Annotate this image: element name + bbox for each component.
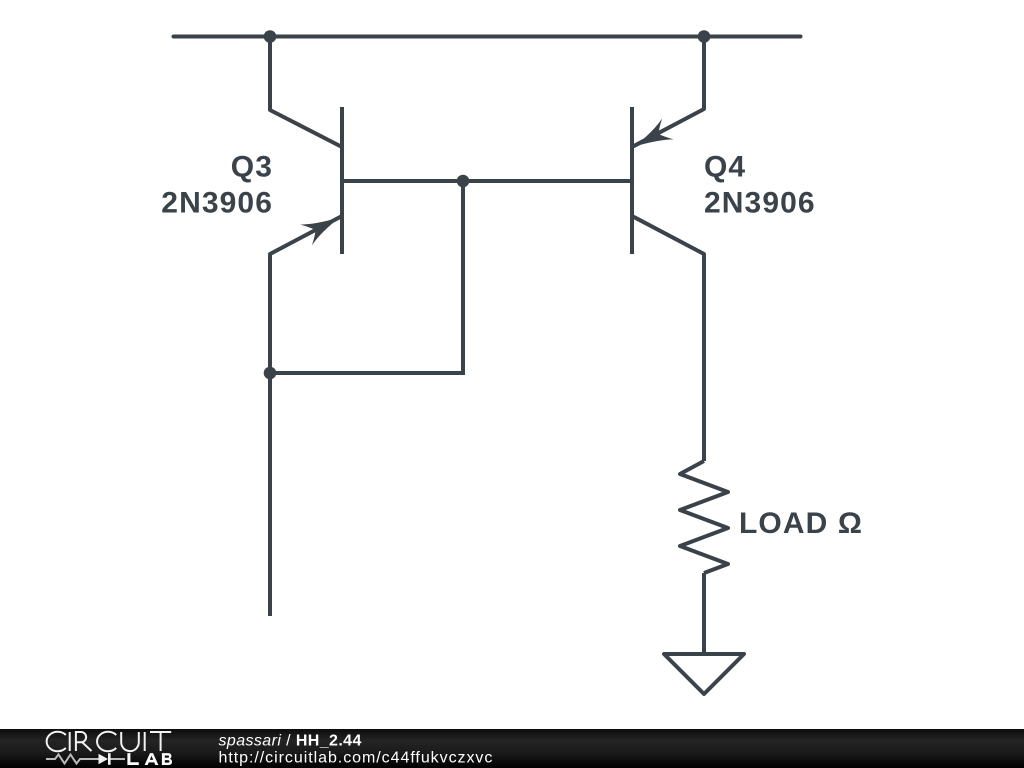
CircuitLab logo circuit squiggle (resistor + diode) [46, 753, 125, 765]
CircuitLab logo wordmark LAB [127, 753, 172, 765]
node: rail / Q4 junction [698, 30, 711, 43]
wire: rail down to Q4 emitter lead [702, 37, 706, 110]
ground symbol [664, 654, 744, 694]
svg-text:Q4: Q4 [704, 151, 746, 184]
node: rail / Q3 junction [264, 30, 277, 43]
wire: base node down and across to Q3 emitter column [270, 181, 463, 373]
svg-text:spassari / HH_2.44: spassari / HH_2.44 [219, 733, 362, 750]
wire: Q3 base to junction node [342, 179, 463, 183]
svg-text:Q3: Q3 [231, 151, 273, 184]
wire: junction down to open end [268, 373, 272, 616]
wire: positive supply rail [174, 35, 801, 39]
wire: junction node to Q4 base [463, 179, 632, 183]
footer bar [0, 729, 1024, 768]
svg-text:LOAD Ω: LOAD Ω [739, 507, 863, 540]
wire: rail down to Q3 collector lead [268, 37, 272, 111]
svg-text:http://circuitlab.com/c44ffukv: http://circuitlab.com/c44ffukvczxvc [219, 750, 494, 767]
transistor Q3 (PNP 2N3906) [270, 107, 346, 256]
transistor Q4 (PNP 2N3906) [628, 107, 704, 256]
node: Q3 emitter / feedback junction [264, 367, 277, 380]
CircuitLab logo wordmark CIRCUIT [47, 732, 172, 751]
wire: resistor to ground [702, 573, 706, 654]
wire: Q4 collector down to resistor [702, 254, 706, 461]
wire: Q3 emitter down to junction [268, 254, 272, 373]
node: base/collector tie junction [457, 175, 470, 188]
svg-text:2N3906: 2N3906 [161, 187, 273, 220]
svg-text:2N3906: 2N3906 [704, 187, 816, 220]
resistor LOAD [680, 461, 728, 573]
